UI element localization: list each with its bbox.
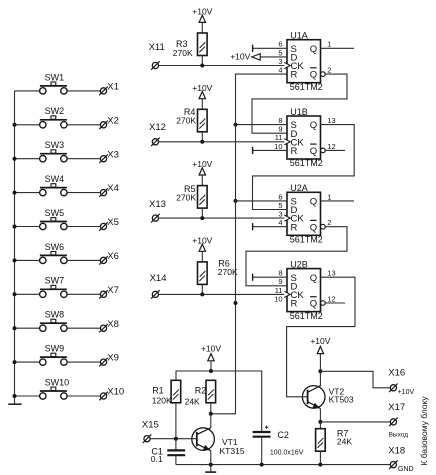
svg-text:Q: Q [310,273,317,284]
wire bus to SW2 left contact [15,124,40,126]
svg-text:Q: Q [310,44,317,55]
resistor R5 270K [176,184,207,208]
svg-text:R: R [291,146,298,157]
wire +10V to R4 [201,99,203,110]
svg-text:SW5: SW5 [45,208,65,218]
junction: bus at SW3 [13,157,17,161]
svg-text:X6: X6 [107,251,119,262]
svg-text:X7: X7 [107,285,119,296]
junction X15/R1/C1 [174,437,178,441]
junction: bus at SW8 [13,326,17,330]
output Q-bar pin 2 inversion circle U2A [321,218,332,229]
wire +10V to R5 [201,175,203,186]
wire C2 to ground rail [261,438,263,465]
flip-flop U1B (561TM2) [284,107,323,168]
output Q-bar pin 12 inversion circle U1B [321,142,345,153]
svg-text:561TM2: 561TM2 [290,82,323,92]
wire SW4 to terminal X4 [67,192,100,194]
wire bus to SW4 left contact [15,192,40,194]
wire bus to SW3 left contact [15,158,40,160]
switch SW4 (pushbutton) [40,174,68,196]
svg-text:U2A: U2A [290,183,308,193]
wire SW7 to terminal X7 [67,293,100,295]
switch SW9 (pushbutton) [40,344,68,366]
terminal X12 [149,122,166,146]
terminal X15 [142,420,159,443]
power +10V flag into U1A D pin 5 [230,52,287,62]
svg-text:К базовому блоку: К базовому блоку [419,396,429,466]
flip-flop U2B (561TM2) [284,259,323,320]
capacitor C2 100.0x16V electrolytic [253,426,304,457]
wire U2B Q pin13 to VT2 base [287,277,355,397]
svg-text:X12: X12 [149,122,166,133]
terminal X11 [149,42,165,70]
terminal X16 [388,367,414,396]
svg-text:X5: X5 [107,217,119,228]
svg-text:+10V: +10V [230,52,250,62]
wire VT2 emitter to X17 node [319,409,321,422]
wire bus to SW5 left contact [15,226,40,228]
switch SW8 (pushbutton) [40,310,68,332]
junction R4/X12 [200,140,204,144]
svg-text:U2B: U2B [290,259,308,269]
junction bus B at U2A S [234,199,238,203]
junction R6/X14 [200,292,204,296]
terminal X18 (GND) [388,445,413,473]
wire R7 to ground rail [319,451,321,464]
svg-text:X9: X9 [107,353,119,364]
svg-text:C2: C2 [277,430,289,440]
wire SW6 to terminal X6 [67,259,100,261]
svg-text:100.0x16V: 100.0x16V [270,449,304,456]
wire bus to SW10 left contact [15,395,40,397]
junction +10V/VT2 collector/X16 [318,369,322,373]
svg-text:Выход: Выход [389,431,409,438]
svg-text:Q: Q [310,70,317,81]
wire U1B Q pin13 to U2A D pin5 [253,125,355,210]
terminal X2 [99,115,119,129]
pin 10 R stub with terminator U1B [253,142,287,154]
switch SW5 (pushbutton) [40,208,68,230]
svg-text:SW2: SW2 [45,106,65,116]
terminal X14 [150,273,167,299]
svg-text:R1: R1 [152,386,164,396]
svg-text:120K: 120K [152,396,172,406]
wire X14 to flip-flop CK input [159,293,287,295]
svg-text:1: 1 [327,40,331,49]
switch SW3 (pushbutton) [40,140,68,162]
wire VT1 emitter to ground rail [210,451,212,465]
junction: bus at SW7 [13,292,17,296]
wire R3 to X11 node [201,56,203,66]
svg-text:X1: X1 [107,82,119,93]
resistor R3 270K [173,33,207,58]
junction ground at C2 [260,463,264,467]
svg-text:R: R [291,222,298,233]
junction +10V rail at R2 [209,369,213,373]
svg-text:KT503: KT503 [329,394,354,404]
svg-text:X8: X8 [107,319,119,330]
svg-text:10: 10 [274,294,282,303]
power +10V for R4 [192,83,212,99]
svg-text:24K: 24K [185,396,200,406]
svg-text:SW1: SW1 [45,72,65,82]
flip-flop U2A (561TM2) [284,183,323,244]
svg-text:561TM2: 561TM2 [290,235,323,245]
ground symbol [205,465,216,473]
svg-text:U1B: U1B [290,107,308,117]
svg-text:12: 12 [327,142,335,151]
wire +10V down to rail [210,361,212,371]
svg-text:Q: Q [310,197,317,208]
junction VT2 emitter/R7/X17 [318,420,322,424]
switch SW2 (pushbutton) [40,106,68,128]
svg-text:2: 2 [327,66,331,75]
terminal X17 (Vyhod) [388,402,408,438]
resistor R2 24K [185,380,216,406]
svg-text:13: 13 [327,269,335,278]
switch SW6 (pushbutton) [40,242,68,264]
wire bus to SW6 left contact [15,259,40,261]
wire R5 to X13 node [201,208,203,218]
power +10V for R5 [192,159,212,175]
wire +10V to VT2 collector node [319,354,321,372]
terminal X3 [99,149,119,163]
wire R2 to VT1 collector node [210,403,212,414]
svg-text:Q: Q [310,146,317,157]
power +10V for VT2 [310,336,330,354]
pin 8 S U1B wire to bus B [236,116,288,125]
wire U1A Q-bar pin2 to U1B D pin9 [252,74,347,133]
svg-text:SW10: SW10 [45,377,70,387]
pin 8 S stub with terminator U2B [253,269,287,281]
svg-text:12: 12 [327,294,335,303]
resistor R6 270K [198,259,238,285]
wire bus B: U1A R pin 4 down to VT1 collector node [211,74,287,414]
svg-text:10: 10 [274,142,282,151]
terminal X1 [99,82,119,96]
wire: left common bus vertical [14,91,16,404]
svg-text:SW8: SW8 [45,310,65,320]
junction R2/VT1 collector/bus B [209,412,213,416]
output Q-bar pin 12 inversion circle U2B [321,294,345,305]
svg-text:X2: X2 [107,115,119,126]
wire +10V to R6 [201,251,203,262]
junction: bus at SW5 [13,225,17,229]
power +10V for R6 [192,235,212,251]
junction R3/X11 [200,64,204,68]
junction: bus at SW4 [13,191,17,195]
terminal X4 [99,183,119,197]
capacitor C1 0.1 [151,447,185,464]
junction ground at VT1 emitter [209,463,213,467]
wire SW5 to terminal X5 [67,226,100,228]
power +10V for R1/R2 rail [201,343,221,361]
svg-text:24K: 24K [337,437,352,447]
wire SW1 to terminal X1 [67,90,100,92]
svg-text:X3: X3 [107,149,119,160]
svg-text:+10V: +10V [398,389,415,396]
junction bus B at U1B S [234,123,238,127]
wire SW10 to terminal X10 [67,395,100,397]
wire X13 to flip-flop CK input [159,217,287,219]
wire bus to SW1 left contact [15,90,40,92]
wire X12 to flip-flop CK input [159,141,287,143]
svg-text:X4: X4 [107,183,119,194]
wire node to C1 [175,439,177,450]
transistor VT2 KT503 (NPN) [302,386,354,409]
wire SW3 to terminal X3 [67,158,100,160]
wire X11 to flip-flop CK input [159,65,287,67]
svg-text:SW3: SW3 [45,140,65,150]
wire VT2 collector [319,371,321,386]
pin 6 S stub with terminator U1A [253,40,287,52]
pin 6 S U2A wire to bus B [236,192,288,201]
svg-text:SW4: SW4 [45,174,65,184]
resistor R7 24K [316,428,353,451]
svg-text:Q: Q [310,299,317,310]
wire ground rail [176,464,391,466]
svg-text:Q: Q [310,222,317,233]
wire C1 to ground rail [175,456,177,464]
svg-text:4: 4 [278,218,282,227]
terminal X5 [99,217,119,231]
junction: bus at SW2 [13,123,17,127]
output Q-bar pin 2 inversion circle U1A [321,66,332,77]
wire node to R7 [319,422,321,429]
svg-text:0.1: 0.1 [151,454,163,464]
svg-text:SW7: SW7 [45,276,65,286]
svg-text:X14: X14 [150,273,167,284]
resistor R4 270K [176,107,207,132]
wire node to X16 [320,371,390,388]
wire bus to SW9 left contact [15,361,40,363]
junction bus B at U2B R [234,301,238,305]
svg-text:R: R [291,70,298,81]
flip-flop U1A (561TM2) [284,31,323,92]
terminal X9 [99,353,119,367]
ground T-bar terminator at bottom of bus [8,403,21,405]
wire R1 to X15 node [175,403,177,439]
svg-text:4: 4 [278,66,282,75]
wire +10V to R3 [201,22,203,33]
output Q pin 1 stub U1A [321,40,355,49]
svg-text:R: R [291,299,298,310]
terminal X13 [149,199,166,222]
terminal X6 [99,251,119,265]
junction ground at R7 [318,463,322,467]
wire bus to SW8 left contact [15,327,40,329]
junction: bus at SW6 [13,258,17,262]
svg-text:1: 1 [327,192,331,201]
wire R6 to X14 node [201,284,203,294]
svg-text:270K: 270K [176,193,196,203]
svg-text:X10: X10 [107,387,124,398]
svg-text:X17: X17 [388,402,405,413]
junction: bus at SW9 [13,360,17,364]
power +10V for R3 [192,7,212,23]
junction R5/X13 [200,216,204,220]
svg-text:X11: X11 [149,42,165,53]
junction: bus at SW10 [13,394,17,398]
svg-text:U1A: U1A [290,31,308,41]
terminal X10 [99,387,124,401]
svg-text:X18: X18 [388,445,405,456]
svg-text:270K: 270K [173,48,193,58]
wire +10V rail R1 to C2 [176,371,262,432]
transistor VT1 KT315 (NPN) [192,428,245,456]
terminal X7 [99,285,119,299]
terminal X8 [99,319,119,333]
output Q pin 1 stub U2A [321,192,355,201]
switch SW10 (pushbutton) [40,377,70,399]
svg-text:KT315: KT315 [220,446,245,456]
svg-text:GND: GND [398,466,414,473]
wire VT1 collector [210,414,212,429]
svg-text:X13: X13 [149,199,166,210]
switch SW7 (pushbutton) [40,276,68,298]
svg-text:X16: X16 [388,367,405,378]
svg-text:2: 2 [327,218,331,227]
wire X15 to VT1 base [150,438,197,440]
svg-text:X15: X15 [142,420,159,431]
svg-text:561TM2: 561TM2 [290,311,323,321]
wire SW9 to terminal X9 [67,361,100,363]
wire SW2 to terminal X2 [67,124,100,126]
wire bus to SW7 left contact [15,293,40,295]
switch SW1 (pushbutton) [40,72,68,94]
pin 4 R stub with terminator U2A [253,218,287,230]
svg-text:SW6: SW6 [45,242,65,252]
svg-text:Q: Q [310,120,317,131]
wire R4 to X12 node [201,132,203,142]
svg-text:13: 13 [327,116,335,125]
svg-text:SW9: SW9 [45,344,65,354]
svg-text:+10V: +10V [201,343,221,353]
wire node to X17 [320,421,390,423]
wire SW8 to terminal X8 [67,327,100,329]
svg-text:561TM2: 561TM2 [290,158,323,168]
svg-text:270K: 270K [176,115,196,125]
resistor R1 120K [152,380,181,405]
svg-text:+10V: +10V [310,336,330,346]
svg-text:R2: R2 [195,386,207,396]
wire U2A Q-bar pin2 to U2B D pin9 [246,227,347,286]
